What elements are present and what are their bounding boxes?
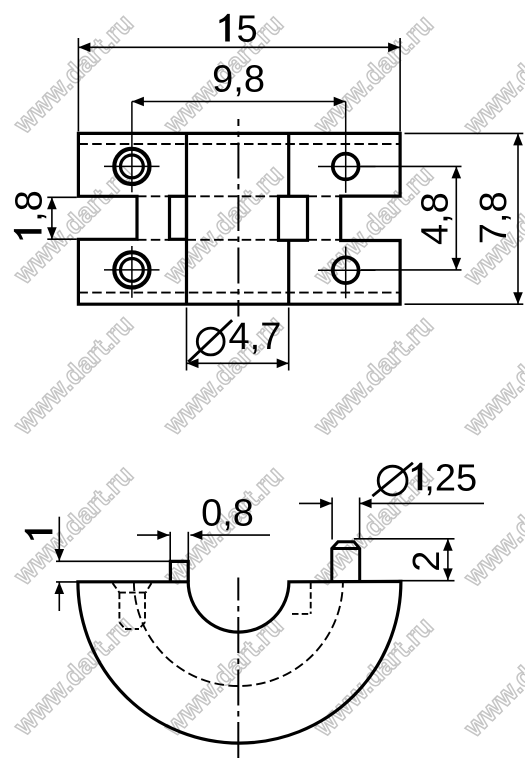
diameter symbol of 1,25 [378,466,407,495]
hole bottom-left outer [114,252,149,287]
hidden dashed line top [78,143,400,145]
svg-text:7,8: 7,8 [473,191,515,244]
diameter symbol of 4,7 [197,328,224,355]
peg on top right [332,542,360,582]
dimension Ø1,25 [299,498,484,540]
dimension 1 [56,517,170,611]
cylinder silhouette line left [185,133,188,304]
svg-text:2: 2 [406,551,448,572]
peg neck line [332,547,360,550]
left tab rectangle [170,196,187,239]
dimension Ø4,7 [187,308,289,371]
hidden dashed line bottom [78,292,400,294]
svg-text:4,7: 4,7 [229,316,282,358]
dimension 15 [78,38,400,131]
dimension 9,8 [132,101,346,103]
hidden dashed segments at slot top level [137,196,341,240]
svg-text:,25: ,25 [424,457,477,499]
hole bottom-right [333,257,359,283]
dimension 1,8 [47,197,77,239]
step 0,8 on channel left edge [170,561,188,581]
svg-text:,8: ,8 [9,190,51,222]
dimension 0,8 [137,532,270,561]
svg-text:www.dart.ru: www.dart.ru [157,159,289,291]
svg-text:www.dart.ru: www.dart.ru [7,610,139,742]
dimension 7,8 [405,133,524,304]
right tab rectangle [279,196,308,240]
hidden pocket right of channel (dashed) [292,583,311,614]
bottom view outline: flat top, step, U channel, outer semicircle [78,581,401,743]
hidden hole left (dashed) [113,583,152,629]
cylinder silhouette line right lower [287,240,290,304]
svg-text:www.dart.ru: www.dart.ru [7,309,139,441]
top view outline with side slots [78,133,400,304]
svg-text:www.dart.ru: www.dart.ru [7,460,139,592]
svg-text:www.dart.ru: www.dart.ru [307,9,439,141]
center line vertical top view [237,119,239,317]
dimension 2 [354,539,455,581]
hole top-left inner [120,155,143,178]
svg-text:www.dart.ru: www.dart.ru [457,10,525,142]
hole bottom-left inner [120,259,143,282]
cylinder silhouette line right upper [287,133,290,196]
hole crosshairs [104,102,376,299]
svg-text:4,8: 4,8 [415,192,457,245]
svg-text:www.dart.ru: www.dart.ru [7,8,139,140]
inner hidden arc (dashed) [134,582,343,687]
svg-text:www.dart.ru: www.dart.ru [457,311,525,443]
svg-text:www.dart.ru: www.dart.ru [307,611,439,743]
svg-text:9,8: 9,8 [212,59,265,101]
center line vertical bottom view [237,578,239,762]
hole top-right [333,154,359,180]
dimension 4,8 [361,166,462,270]
svg-text:www.dart.ru: www.dart.ru [307,310,439,442]
svg-text:0,8: 0,8 [201,493,254,535]
svg-text:5: 5 [237,9,258,51]
svg-text:www.dart.ru: www.dart.ru [457,612,525,744]
hole top-left outer [114,149,149,184]
